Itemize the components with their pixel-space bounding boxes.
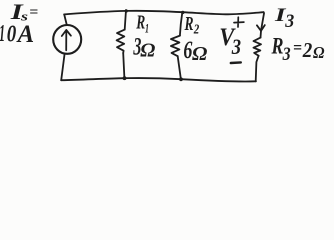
junction dot R1 top — [125, 9, 128, 12]
label V3 plus sign — [234, 17, 244, 27]
svg-text:Ω: Ω — [313, 43, 325, 62]
junction dot R1 bottom — [123, 76, 127, 80]
current source I_s — [53, 25, 81, 54]
svg-text:A: A — [16, 21, 34, 48]
wire top-left stub from current source — [64, 14, 67, 25]
junction dot R2 bottom — [179, 77, 183, 81]
svg-text:2: 2 — [302, 38, 313, 62]
wire R1 branch top — [125, 10, 126, 30]
svg-text:1: 1 — [145, 21, 149, 36]
current source arrow — [62, 30, 71, 50]
label Is= — [9, 0, 38, 24]
label V3 minus sign — [231, 61, 241, 64]
resistor R1 zigzag — [117, 30, 125, 53]
wire R3 link — [260, 31, 263, 38]
junction dot R2 top — [181, 11, 184, 14]
resistor R2 zigzag — [171, 36, 180, 57]
svg-text:3: 3 — [284, 12, 294, 32]
label I3 — [274, 5, 295, 32]
svg-text:R: R — [184, 13, 194, 35]
svg-text:=: = — [29, 4, 38, 20]
wire R3 branch bottom — [256, 56, 259, 82]
svg-text:3: 3 — [282, 44, 291, 65]
label 6 ohm — [183, 35, 207, 65]
label R3=2ohm — [271, 34, 325, 65]
svg-text:0: 0 — [7, 21, 16, 47]
svg-text:=: = — [293, 38, 302, 57]
svg-text:R: R — [271, 34, 284, 59]
wire R2 branch bottom — [178, 56, 181, 79]
wire bottom horizontal — [61, 78, 256, 81]
svg-text:2: 2 — [193, 23, 199, 38]
wire R1 branch bottom — [123, 53, 124, 78]
svg-text:Ω: Ω — [140, 40, 155, 61]
label R1 — [136, 12, 149, 36]
label 10A value — [0, 21, 34, 48]
arrow I3 head — [257, 25, 265, 31]
wire top horizontal — [64, 11, 263, 15]
svg-text:R: R — [136, 12, 146, 34]
label V3 — [219, 24, 241, 59]
wire top-right corner down — [261, 12, 264, 30]
svg-text:Ω: Ω — [192, 44, 208, 65]
wire R2 branch top — [180, 12, 182, 35]
resistor R3 zigzag — [254, 38, 262, 56]
svg-text:3: 3 — [231, 34, 241, 59]
label 3 ohm — [133, 31, 156, 61]
wire bottom-left vertical — [61, 54, 64, 80]
label R2 — [184, 13, 199, 37]
svg-text:1: 1 — [0, 21, 5, 47]
